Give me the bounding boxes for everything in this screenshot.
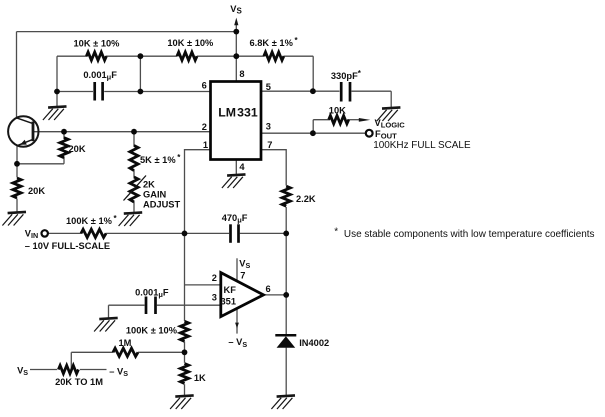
ground under 1K — [170, 395, 194, 409]
wire 10K pullup down to pin3 node — [312, 120, 314, 134]
terminal Fout — [366, 130, 373, 137]
svg-text:3: 3 — [212, 293, 217, 303]
svg-text:4: 4 — [239, 162, 245, 172]
svg-text:6: 6 — [202, 81, 207, 91]
resistor 100K 1% — [81, 229, 106, 237]
svg-text:2: 2 — [202, 122, 207, 132]
wire top row from left column to Vs node — [17, 31, 237, 33]
capacitor 470uF — [231, 224, 239, 243]
svg-text:100KHz FULL SCALE: 100KHz FULL SCALE — [373, 140, 471, 151]
wire 0.001uF no2 row — [109, 304, 145, 306]
resistor 100K 10% — [180, 321, 188, 341]
resistor 6.8K — [264, 52, 284, 60]
svg-text:VS: VS — [239, 259, 250, 271]
svg-text:470μF: 470μF — [222, 213, 248, 225]
wire 20K no.2 to ground — [16, 199, 18, 212]
svg-text:7: 7 — [240, 271, 245, 281]
ground under diode — [271, 395, 295, 409]
transistor Q1 — [8, 116, 38, 146]
wire left vertical to cap row — [56, 56, 58, 91]
ground under 0.001uF row left — [43, 106, 67, 120]
svg-text:6.8K ± 1%*: 6.8K ± 1%* — [250, 36, 299, 48]
svg-text:20K: 20K — [28, 186, 45, 196]
wire 470uF to 2.2K node — [240, 232, 286, 234]
svg-text:ADJUST: ADJUST — [143, 199, 181, 209]
wire 0.001uF cap row — [57, 91, 93, 93]
svg-text:1K: 1K — [194, 373, 206, 383]
op-amp -Vs label with arrow — [235, 323, 239, 329]
svg-text:VIN: VIN — [25, 228, 38, 240]
junction op-amp output node — [283, 292, 289, 298]
wire Vin node down to 100K 10% and 1K column — [184, 233, 186, 321]
wire Vs node down to pin 8 — [235, 32, 237, 82]
svg-text:330pF*: 330pF* — [331, 69, 362, 81]
junction 1M row node — [182, 349, 188, 355]
wire op-amp pin2 row — [185, 284, 221, 286]
wire pin 7 elbow — [261, 150, 286, 186]
ground under 20K no.2 — [2, 212, 26, 226]
ground for 0.001uF no.2 — [94, 318, 118, 332]
wire emitter column — [16, 145, 18, 177]
wire 2.2K bottom to Vin row — [285, 207, 287, 233]
svg-text:IN4002: IN4002 — [299, 338, 329, 348]
resistor 20K no.2 — [13, 178, 21, 198]
wire 6.8K down to pin5 node — [312, 56, 314, 91]
terminal Vin — [42, 230, 48, 236]
junction base row 20K — [61, 129, 67, 135]
wire 1K to ground — [184, 384, 186, 395]
resistor 1M — [113, 348, 138, 356]
junction 470uF right node — [283, 231, 289, 237]
ground under pin 4 — [222, 174, 246, 188]
svg-text:7: 7 — [267, 140, 272, 150]
resistor R 10K 10% no.1 — [86, 52, 106, 60]
wire 330pF to vlogic ground — [352, 90, 392, 92]
wire pot to -Vs — [80, 369, 107, 371]
svg-text:20K: 20K — [69, 144, 86, 154]
junction Vs top row — [233, 29, 239, 35]
wire 100K10% bottom to 1M node — [184, 342, 186, 363]
ground for 330pF (V logic area) — [377, 107, 401, 121]
svg-text:2.2K: 2.2K — [296, 194, 316, 204]
resistor 1K — [180, 364, 188, 384]
diode 1N4002 — [275, 334, 296, 337]
junction Vin node — [182, 231, 188, 237]
wire ground stub under cap row — [56, 92, 58, 107]
svg-text:0.001μF: 0.001μF — [83, 70, 117, 82]
capacitor 330pF — [341, 82, 350, 102]
wire op-amp output — [264, 294, 287, 296]
svg-text:GAIN: GAIN — [143, 189, 167, 199]
svg-text:100K ± 10%: 100K ± 10% — [126, 326, 178, 336]
svg-text:10K ± 10%: 10K ± 10% — [74, 38, 121, 48]
junction cap row left — [54, 89, 60, 95]
junction pin5 node — [310, 88, 316, 94]
potentiometer 2K gain adjust — [130, 177, 138, 202]
wire 100K to Vin node — [106, 232, 230, 234]
junction emitter 20K — [14, 161, 20, 167]
resistor 10K pullup — [329, 116, 349, 124]
wire pin 3 row to Fout — [261, 132, 366, 134]
wire 2.2K node down to op-amp output node — [285, 233, 287, 295]
wire diode to ground — [285, 348, 287, 395]
wire 0.001uF no2 ground stub — [108, 305, 110, 317]
svg-text:1: 1 — [203, 140, 208, 150]
wire op-amp V- stub — [236, 308, 238, 333]
op-amp KF351 — [221, 273, 264, 317]
wire pin 4 stub — [235, 160, 237, 175]
junction 10K right top — [138, 53, 144, 59]
wire Vs to pot — [30, 369, 57, 371]
wire pin 5 row — [261, 90, 313, 92]
svg-text:VS: VS — [17, 366, 28, 378]
svg-text:* Use stable components with l: * Use stable components with low tempera… — [334, 226, 594, 240]
wire left column down to transistor collector — [16, 32, 18, 118]
wire pin5 node to 330pF — [313, 90, 340, 92]
wire bottom of 20K no.1 to emitter column — [17, 163, 64, 165]
svg-text:8: 8 — [239, 69, 244, 79]
IC LM331 — [211, 82, 262, 160]
wire 10K pullup row — [313, 119, 330, 121]
potentiometer 20K TO 1M — [58, 365, 78, 373]
wire 1M left end down to pot — [70, 352, 72, 369]
wire Vin terminal to 100K — [48, 232, 82, 234]
wire right vertical of 10K feedback loop — [139, 56, 141, 91]
svg-text:10K ± 10%: 10K ± 10% — [167, 38, 214, 48]
junction pin3 node — [310, 130, 316, 136]
svg-text:0.001μF: 0.001μF — [135, 287, 169, 299]
svg-text:20K TO 1M: 20K TO 1M — [55, 377, 103, 387]
resistor 20K no.1 — [60, 138, 68, 158]
arrow to V logic — [359, 118, 371, 122]
svg-text:351: 351 — [221, 296, 237, 306]
resistor 2.2K — [282, 186, 290, 206]
svg-text:1M: 1M — [119, 338, 132, 348]
resistor 5K — [130, 146, 138, 171]
svg-text:100K ± 1%*: 100K ± 1%* — [66, 214, 118, 226]
svg-text:2K: 2K — [143, 179, 155, 189]
wire pin 1 elbow down to Vin node — [185, 150, 211, 234]
junction base row 5K — [131, 129, 137, 135]
svg-text:5K ± 1%*: 5K ± 1%* — [140, 153, 181, 165]
wire output node down to diode — [285, 295, 287, 335]
svg-text:– VS: – VS — [109, 367, 128, 379]
svg-text:2: 2 — [212, 273, 217, 283]
wire 1M row — [71, 351, 113, 353]
Vs supply arrow — [235, 22, 237, 32]
svg-text:LM331: LM331 — [218, 106, 258, 120]
wire main resistor row y=56 segments — [57, 55, 87, 57]
wire op-amp V+ stub — [236, 258, 238, 282]
svg-text:10K: 10K — [329, 106, 346, 116]
svg-text:5: 5 — [266, 82, 271, 92]
wire 2K to ground — [133, 202, 135, 213]
junction Vs resistor row — [233, 53, 239, 59]
wire base row to pin 2 — [33, 131, 211, 133]
wire 5K stubs — [133, 132, 135, 146]
svg-text:KF: KF — [224, 285, 237, 295]
resistor R 10K 10% no.2 — [177, 52, 197, 60]
wire 20K no.1 stubs — [63, 132, 65, 139]
capacitor 0.001uF no.2 — [146, 297, 156, 315]
junction cap row right — [138, 89, 144, 95]
capacitor 0.001uF no.1 — [95, 82, 103, 101]
svg-text:– 10V FULL-SCALE: – 10V FULL-SCALE — [25, 241, 110, 251]
svg-text:3: 3 — [266, 122, 271, 132]
svg-text:6: 6 — [266, 284, 271, 294]
ground under 2K — [119, 212, 143, 226]
svg-text:– VS: – VS — [228, 337, 247, 349]
